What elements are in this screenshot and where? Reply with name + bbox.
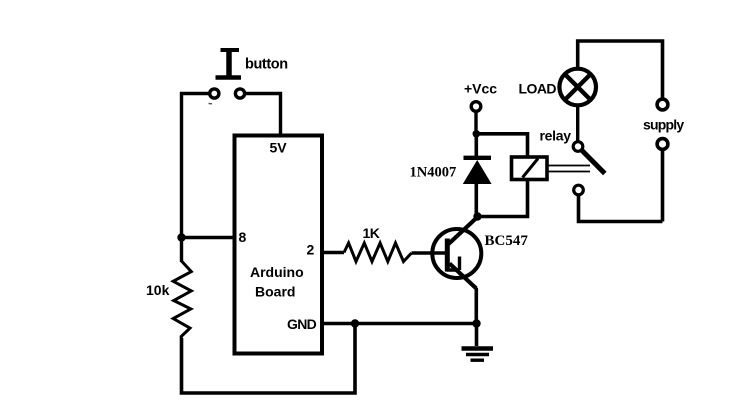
wire: Vcc down to node E — [474, 112, 477, 135]
wire: emitter down to GND net — [474, 288, 478, 324]
svg-text:button: button — [245, 57, 288, 73]
switch NO terminal — [574, 185, 584, 195]
svg-text:supply: supply — [643, 117, 684, 133]
supply terminal bottom — [657, 139, 668, 150]
node A junction dot (pin8 tap) — [177, 233, 185, 241]
ground — [462, 324, 494, 361]
svg-text:+Vcc: +Vcc — [464, 81, 497, 97]
node E junction dot (Vcc net) — [473, 130, 481, 138]
switch common terminal — [573, 142, 583, 152]
relay K1 coil — [512, 157, 548, 180]
push button S1 plunger — [216, 50, 242, 78]
relay coil diagonal — [523, 159, 539, 178]
node D junction dot (collector) — [473, 212, 481, 220]
wire: base lead — [412, 251, 449, 254]
svg-text:Arduino: Arduino — [250, 264, 304, 280]
svg-text:Board: Board — [255, 284, 295, 300]
resistor 10k — [173, 261, 191, 338]
wire: right button terminal to 5V pin — [245, 94, 281, 138]
button terminal left — [210, 89, 219, 98]
svg-text:2: 2 — [307, 242, 315, 258]
transistor Q1 BC547 — [432, 217, 481, 289]
Arduino Board U1 — [235, 136, 323, 354]
wire: collector to relay coil bottom — [478, 179, 528, 217]
node C junction dot (emitter/ground) — [472, 319, 480, 327]
wire: lamp bottom to switch common — [576, 105, 579, 141]
svg-text:1N4007: 1N4007 — [410, 165, 457, 181]
node B junction dot (bottom rail / GND net) — [351, 319, 359, 327]
svg-text:GND: GND — [287, 316, 317, 332]
stray mark under left terminal — [209, 103, 213, 105]
supply terminal top — [657, 99, 668, 110]
wire: pin 8 — [182, 236, 235, 239]
resistor R1 1K — [344, 243, 412, 262]
svg-text:LOAD: LOAD — [519, 81, 557, 97]
svg-text:relay: relay — [540, 128, 572, 144]
wire: GND net from board to ground — [322, 322, 477, 326]
wire: left button terminal to left rail down to 10k top — [182, 94, 210, 263]
svg-text:1K: 1K — [363, 225, 380, 241]
svg-text:10k: 10k — [146, 282, 170, 298]
diode D1 1N4007 — [463, 134, 492, 217]
button terminal right — [235, 89, 244, 98]
linkage lines — [549, 166, 591, 172]
svg-text:8: 8 — [239, 229, 247, 245]
svg-text:BC547: BC547 — [485, 233, 529, 249]
wire: 10k bottom to bottom rail to GND junction — [182, 324, 356, 394]
lamp LOAD — [559, 69, 596, 106]
wire: Vcc node to relay coil top — [476, 134, 527, 157]
wire: lamp top to supply top terminal — [578, 41, 663, 98]
svg-text:5V: 5V — [270, 140, 288, 156]
wire: pin 2 lead — [322, 251, 344, 254]
wire: switch NO terminal down along bottom to supply bottom terminal — [579, 150, 663, 222]
terminal +Vcc — [471, 102, 481, 112]
switch blade — [582, 151, 605, 174]
